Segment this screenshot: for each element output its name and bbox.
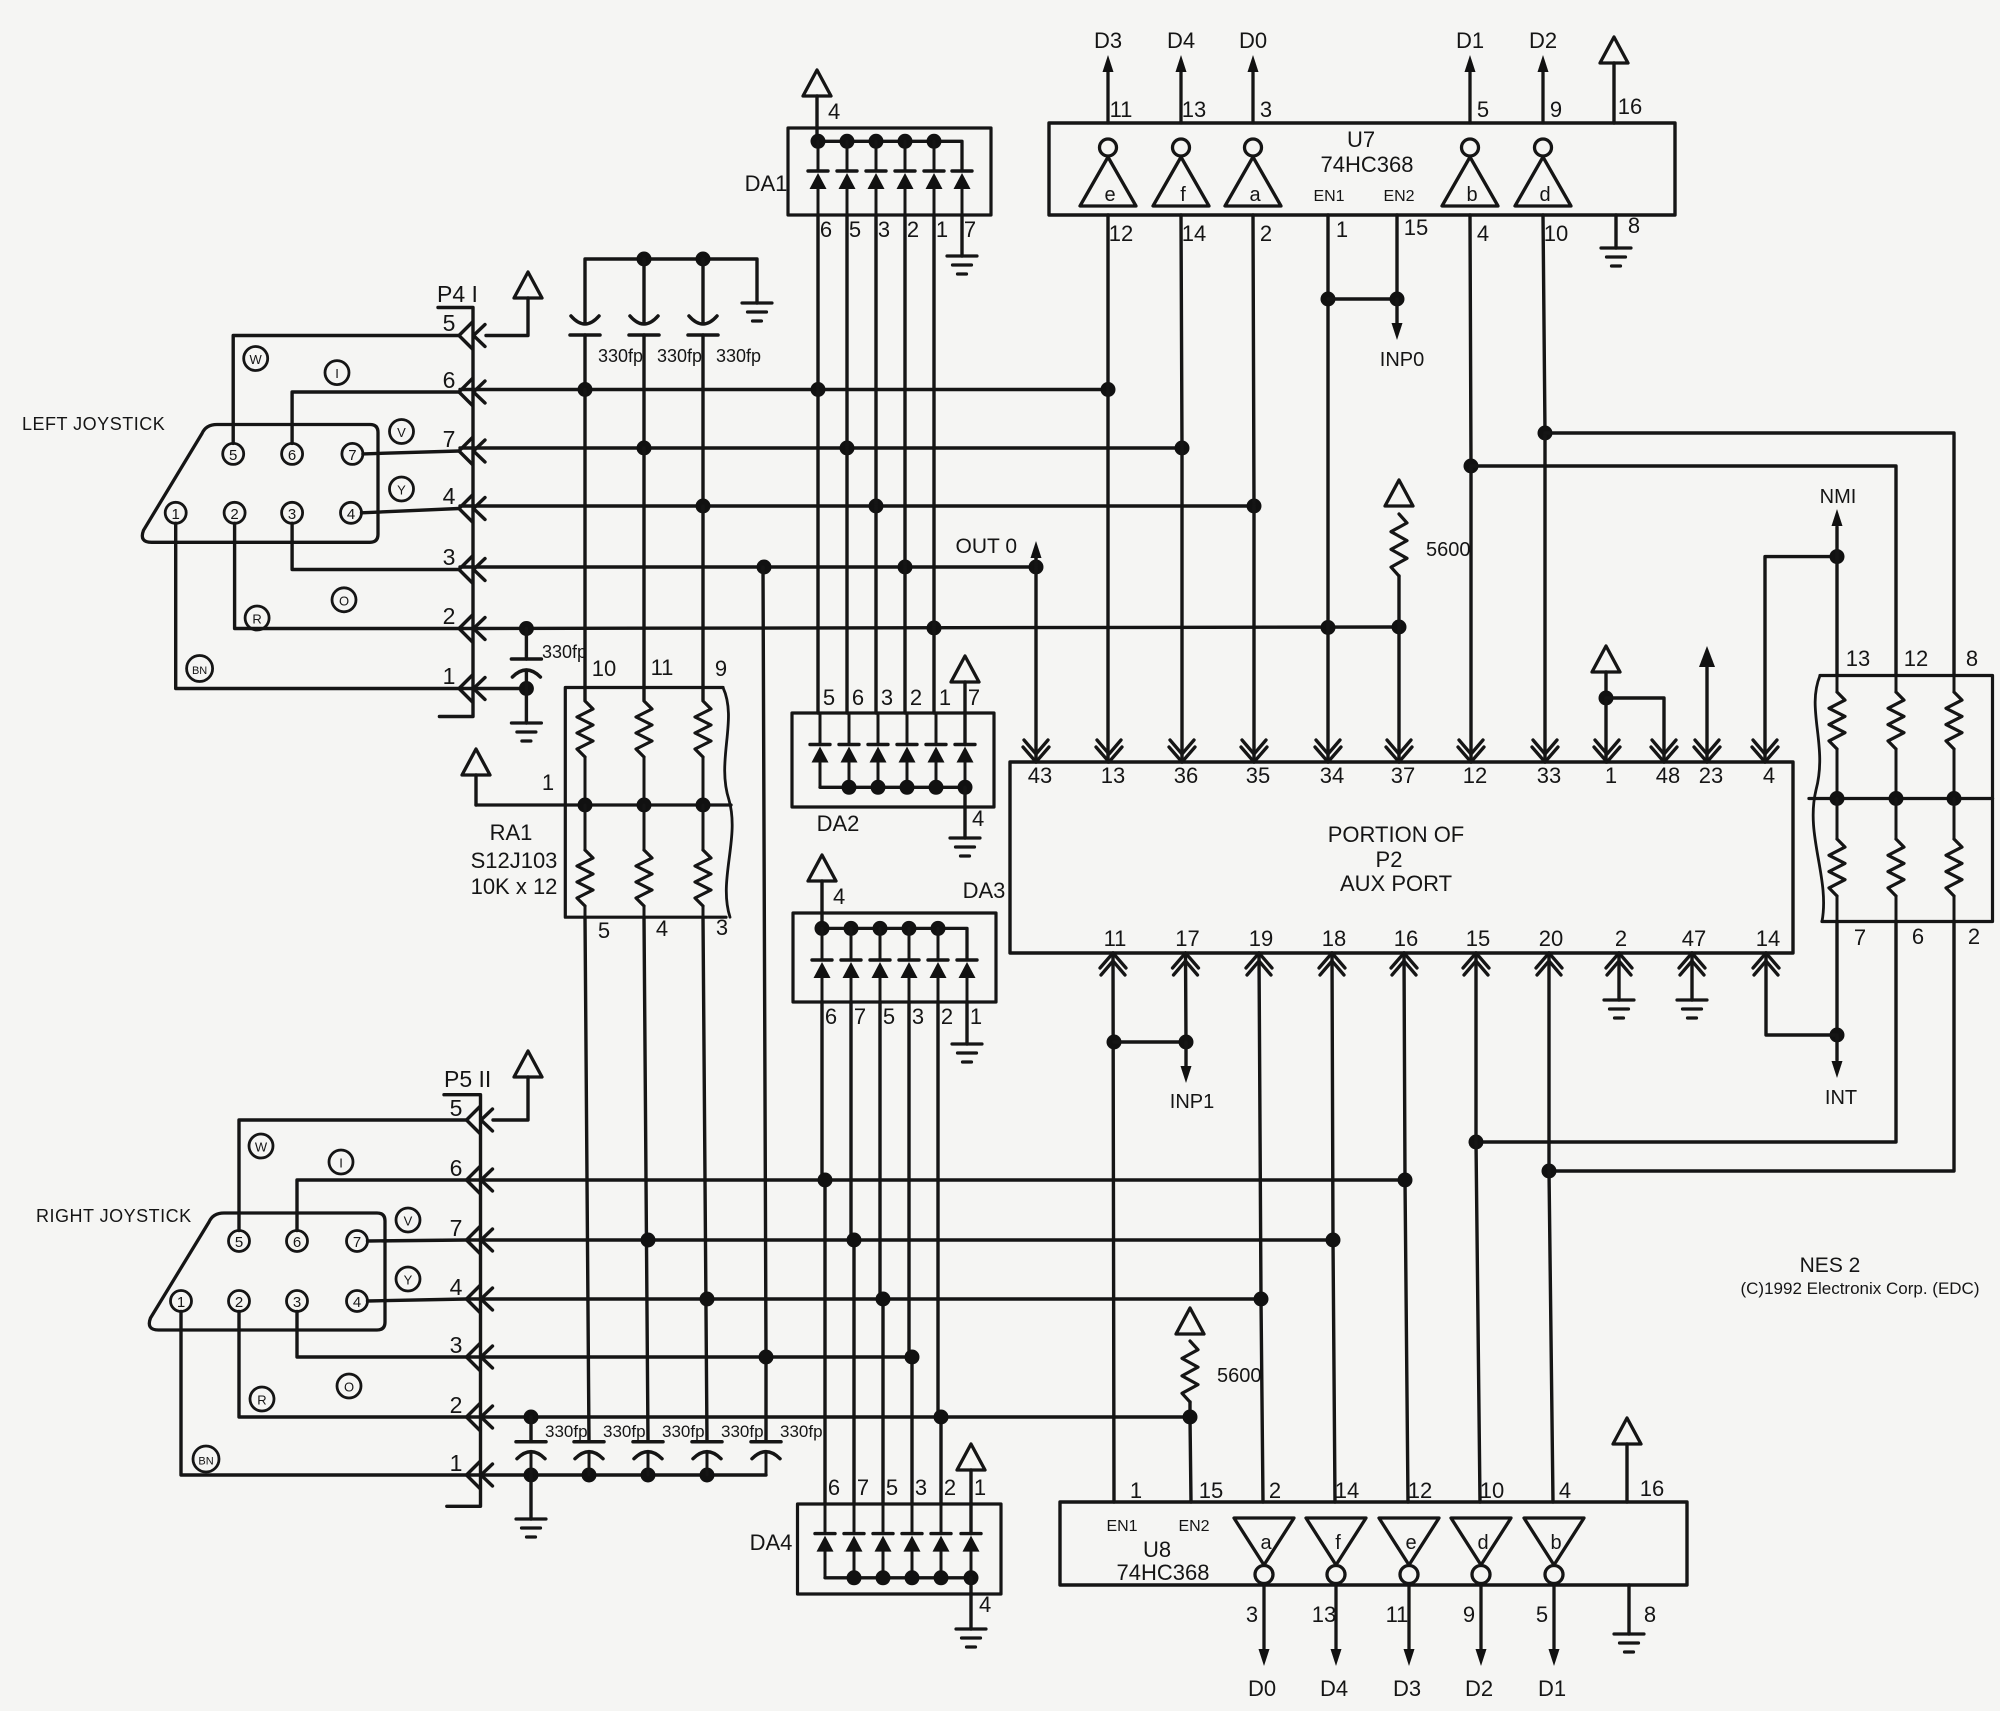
svg-text:7: 7 bbox=[348, 447, 356, 464]
svg-text:DA3: DA3 bbox=[963, 878, 1006, 903]
ground at P4.1 bbox=[511, 723, 541, 741]
svg-text:I: I bbox=[339, 1156, 343, 1171]
svg-text:2: 2 bbox=[907, 217, 919, 242]
svg-text:9: 9 bbox=[1550, 97, 1562, 122]
svg-text:13: 13 bbox=[1182, 97, 1206, 122]
left joystick pin 3 circle bbox=[282, 502, 303, 523]
svg-text:U8: U8 bbox=[1143, 1537, 1171, 1562]
svg-text:20: 20 bbox=[1539, 926, 1563, 951]
resistor RA1 10K (col3 bottom) bbox=[695, 850, 711, 906]
diode DA3.3 bbox=[870, 958, 890, 961]
left joystick wire label O bbox=[332, 588, 356, 612]
P2 pin 35 arrow bbox=[1241, 747, 1267, 762]
P5 pin 6 arrow bbox=[467, 1167, 481, 1194]
diode DA4.6 bbox=[961, 1532, 981, 1535]
svg-text:3: 3 bbox=[443, 544, 456, 570]
svg-text:INP1: INP1 bbox=[1170, 1091, 1214, 1113]
wire INT stub bbox=[1835, 1035, 1838, 1060]
diode DA1.6 bbox=[952, 169, 972, 172]
wire P5.4 net to U8.a bbox=[1261, 1299, 1263, 1502]
svg-text:(C)1992 Electronix Corp. (EDC): (C)1992 Electronix Corp. (EDC) bbox=[1740, 1279, 1979, 1298]
svg-text:330fp: 330fp bbox=[780, 1422, 823, 1441]
wire P2.4 to NMI node bbox=[1765, 557, 1837, 762]
wire P4.5 to VCC bbox=[486, 298, 528, 336]
svg-text:330fp: 330fp bbox=[721, 1422, 764, 1441]
wire U8.8 to ground bbox=[1627, 1585, 1630, 1634]
svg-text:D2: D2 bbox=[1465, 1676, 1493, 1701]
right joystick wire label Y bbox=[396, 1267, 420, 1291]
ground at P5.1 bbox=[516, 1519, 546, 1537]
DA3 common bus bbox=[822, 928, 967, 960]
junction DA col1/P4.6 bbox=[811, 382, 826, 397]
ground at P2.2 bbox=[1604, 1000, 1634, 1018]
wire P4.4 line down to DA2.3 bbox=[874, 506, 877, 713]
junction DA1 bus bbox=[898, 134, 913, 149]
junction cap/P5.1 bbox=[524, 1468, 539, 1483]
svg-text:2: 2 bbox=[443, 603, 456, 629]
svg-text:d: d bbox=[1477, 1532, 1488, 1554]
junction DA4 col5/P5.2 bbox=[934, 1410, 949, 1425]
P2 pin 47 arrow bbox=[1679, 953, 1705, 968]
wire RRA.2 to P2.20 net bbox=[1549, 922, 1954, 1172]
svg-text:10K x 12: 10K x 12 bbox=[471, 874, 558, 899]
wire v2 P4.7 down to RA1.11 bbox=[642, 448, 645, 700]
junction P2.19 net/P5.4 bbox=[1254, 1292, 1269, 1307]
svg-text:5: 5 bbox=[1536, 1602, 1548, 1627]
power VCC at 5600 pullup 2 bbox=[1176, 1308, 1204, 1334]
wire P2.20 down bbox=[1547, 953, 1550, 1171]
wire P5.1 ground line bbox=[467, 1473, 766, 1476]
svg-text:2: 2 bbox=[941, 1004, 953, 1029]
junction DA col2/P4.7 bbox=[840, 441, 855, 456]
wire P5.6 net to U8.e bbox=[1405, 1180, 1408, 1502]
arrowhead D3 bbox=[1103, 55, 1114, 72]
svg-text:1: 1 bbox=[443, 663, 456, 689]
diode DA3.5 bbox=[928, 958, 948, 961]
capacitor 330fp (bottom row 2) bbox=[574, 1440, 604, 1444]
svg-text:2: 2 bbox=[1968, 924, 1980, 949]
svg-text:3: 3 bbox=[716, 915, 728, 940]
left joystick pin 2 circle bbox=[224, 502, 245, 523]
svg-text:7: 7 bbox=[854, 1004, 866, 1029]
wire P4.7 line bbox=[460, 446, 1182, 449]
wire v2 RA1.4 down to cap bbox=[644, 917, 648, 1442]
P5 pin 4 arrow bbox=[467, 1286, 481, 1313]
svg-text:9: 9 bbox=[715, 656, 727, 681]
svg-text:5: 5 bbox=[823, 685, 835, 710]
ground at U8.8 bbox=[1614, 1634, 1644, 1652]
arrowhead INP1 bbox=[1181, 1066, 1192, 1083]
svg-text:Y: Y bbox=[404, 1273, 413, 1288]
svg-text:1: 1 bbox=[939, 685, 951, 710]
diode DA2.1 bbox=[810, 743, 830, 746]
left joystick pin 4 circle bbox=[341, 502, 362, 523]
svg-text:12: 12 bbox=[1408, 1478, 1432, 1503]
arrowhead D3 (U8) bbox=[1404, 1649, 1415, 1666]
wire diode to box edge bbox=[817, 189, 820, 215]
junction 5600/P4.2 bbox=[1392, 620, 1407, 635]
wire P4.2 line down to DA2.1 bbox=[932, 628, 935, 713]
wire 5600 to P5.2 line bbox=[1188, 1402, 1191, 1417]
wire DA4 pin into box bbox=[940, 1504, 943, 1534]
arrowhead D0 (U8) bbox=[1259, 1649, 1270, 1666]
junction DA4 bus bbox=[847, 1570, 862, 1585]
wire P4.2 net to P2.37 bbox=[1397, 627, 1400, 762]
wire U7.e net to P2.13 bbox=[1106, 390, 1109, 763]
capacitor 330fp (bottom row 4) bbox=[692, 1440, 722, 1444]
wire right joystick 3 to P5.3 bbox=[297, 1312, 466, 1358]
wire P5.3 line down to DA4.3 bbox=[910, 1357, 913, 1504]
wire U7.b net to RRA col2 bbox=[1471, 466, 1896, 676]
wire cap to ground line bbox=[765, 1453, 768, 1476]
svg-text:f: f bbox=[1180, 184, 1186, 206]
wire P5.6 line down to DA4.6 bbox=[823, 1180, 826, 1504]
svg-text:1: 1 bbox=[974, 1475, 986, 1500]
wire P4.6 line bbox=[460, 388, 1108, 391]
right joystick wire label O bbox=[337, 1374, 361, 1398]
junction P2.1/48 VCC bbox=[1599, 691, 1614, 706]
wire cap to ground line bbox=[647, 1453, 650, 1476]
wire cap to ground line bbox=[706, 1453, 709, 1476]
diode DA4.1 bbox=[815, 1532, 835, 1535]
junction RA1 bus bbox=[637, 798, 652, 813]
P4 pin 7 arrow bbox=[459, 438, 473, 465]
wire P4.2 to cap bbox=[525, 629, 528, 660]
arrowhead D1 bbox=[1465, 55, 1476, 72]
svg-text:f: f bbox=[1335, 1532, 1341, 1554]
arrowhead D2 bbox=[1538, 55, 1549, 72]
power VCC at DA1.4 bbox=[803, 70, 831, 96]
diode array DA1 box bbox=[788, 128, 991, 215]
svg-text:b: b bbox=[1550, 1532, 1561, 1554]
junction v3/P5.4 bbox=[700, 1292, 715, 1307]
junction DA2 bus bbox=[929, 780, 944, 795]
inverter U8 b bbox=[1524, 1518, 1584, 1565]
resistor 5600 (P4.2 pullup) bbox=[1391, 514, 1407, 576]
P5 pin 5 arrow bbox=[467, 1107, 481, 1134]
svg-text:1: 1 bbox=[450, 1450, 463, 1476]
junction RA1 bus bbox=[578, 798, 593, 813]
wire P5.2 to cap1 bbox=[529, 1417, 532, 1442]
resistor RA1 10K (col1 bottom) bbox=[577, 850, 593, 906]
wire P2.17 down bbox=[1184, 953, 1188, 1042]
junction DA4 col1/P5.6 bbox=[818, 1173, 833, 1188]
svg-text:11: 11 bbox=[1386, 1602, 1409, 1627]
left joystick pin 6 circle bbox=[282, 443, 303, 464]
svg-text:DA4: DA4 bbox=[750, 1530, 793, 1555]
P2 pin 19 arrow bbox=[1246, 953, 1272, 968]
ground at DA3.1 bbox=[952, 1044, 982, 1062]
junction DA3 bus bbox=[902, 921, 917, 936]
svg-text:6: 6 bbox=[828, 1475, 840, 1500]
diode DA1.1 bbox=[808, 169, 828, 172]
svg-text:330fp: 330fp bbox=[542, 642, 587, 662]
P2 pin 48 arrow bbox=[1651, 747, 1677, 762]
junction DA col5/P4.2 bbox=[927, 621, 942, 636]
svg-text:8: 8 bbox=[1628, 213, 1640, 238]
inverter U8 e bbox=[1379, 1518, 1439, 1565]
junction cap/P4.1 bbox=[519, 681, 534, 696]
svg-text:D1: D1 bbox=[1538, 1676, 1566, 1701]
svg-text:5: 5 bbox=[598, 918, 610, 943]
power VCC at P4.5 bbox=[514, 272, 542, 298]
svg-text:6: 6 bbox=[443, 367, 456, 393]
svg-text:W: W bbox=[250, 352, 263, 367]
svg-text:16: 16 bbox=[1640, 1476, 1664, 1501]
wire DA2.4 to ground bbox=[963, 787, 966, 838]
power VCC at U8.16 bbox=[1613, 1418, 1641, 1444]
junction DA1 bus bbox=[869, 134, 884, 149]
wire DA1.5 down bbox=[845, 215, 848, 448]
wire left joystick 6 to P4.6 bbox=[292, 392, 459, 443]
wire cap to ground bbox=[525, 672, 528, 723]
svg-text:4: 4 bbox=[1763, 763, 1775, 788]
junction DA4 bus bbox=[876, 1570, 891, 1585]
ground for top caps bbox=[742, 303, 772, 321]
junction OUT0/P4.3 bbox=[1029, 560, 1044, 575]
wire diode to box edge bbox=[904, 189, 907, 215]
right joystick DB9 connector body bbox=[149, 1213, 385, 1330]
svg-text:11: 11 bbox=[651, 655, 674, 680]
wire P5.2 net to U8 EN2 bbox=[1190, 1417, 1191, 1502]
wire right joystick 6 to P5.6 bbox=[297, 1180, 466, 1231]
wire P2.16 down bbox=[1404, 953, 1405, 1180]
left joystick wire label I bbox=[325, 361, 349, 385]
svg-text:4: 4 bbox=[979, 1592, 991, 1617]
wire DA4.1 from VCC bbox=[969, 1470, 972, 1534]
svg-text:LEFT JOYSTICK: LEFT JOYSTICK bbox=[22, 414, 165, 434]
junction DA3 bus bbox=[844, 921, 859, 936]
svg-text:R: R bbox=[252, 612, 261, 627]
svg-text:330fp: 330fp bbox=[662, 1422, 705, 1441]
wire P2.15 net to U8.d bbox=[1476, 1142, 1480, 1502]
wire right joystick 1 to P5.1 bbox=[181, 1312, 466, 1476]
IC U8 74HC368 box bbox=[1060, 1502, 1687, 1585]
wire DA2.7 from VCC bbox=[963, 682, 966, 745]
junction DA2 bus bbox=[871, 780, 886, 795]
wire DA4 pin into box bbox=[853, 1504, 856, 1534]
svg-text:2: 2 bbox=[235, 1294, 243, 1311]
wire DA1.6 down bbox=[816, 215, 819, 390]
junction U7.f/P4.7 bbox=[1175, 441, 1190, 456]
junction DA col4/P4.3 bbox=[898, 560, 913, 575]
svg-text:D3: D3 bbox=[1094, 28, 1122, 53]
P2 pin 18 arrow bbox=[1319, 953, 1345, 968]
svg-text:5: 5 bbox=[886, 1475, 898, 1500]
junction 5600-2/P5.2 bbox=[1183, 1410, 1198, 1425]
diode DA3.1 bbox=[812, 958, 832, 961]
svg-text:PORTION OF: PORTION OF bbox=[1328, 822, 1465, 847]
svg-text:13: 13 bbox=[1846, 646, 1870, 671]
svg-text:3: 3 bbox=[1260, 97, 1272, 122]
wire P5.4 line bbox=[467, 1297, 1261, 1300]
svg-text:1: 1 bbox=[177, 1294, 185, 1311]
svg-text:a: a bbox=[1249, 184, 1261, 206]
svg-text:5600: 5600 bbox=[1426, 539, 1471, 561]
junction DA4 bus bbox=[964, 1570, 979, 1585]
svg-text:e: e bbox=[1104, 184, 1115, 206]
wire left joystick 7 to P4.7 bbox=[363, 451, 459, 454]
wire DA3.2 down to P5.2 line bbox=[936, 1002, 939, 1417]
left joystick pin 1 circle bbox=[165, 502, 186, 523]
junction cap1/P4.6 bbox=[578, 382, 593, 397]
wire U8 d output to D2 bbox=[1479, 1584, 1482, 1650]
connector P2 AUX PORT box bbox=[1010, 762, 1793, 953]
right joystick pin 3 circle bbox=[287, 1291, 308, 1312]
svg-text:4: 4 bbox=[1559, 1478, 1571, 1503]
svg-text:330fp: 330fp bbox=[657, 346, 702, 366]
P5 pin 3 arrow bbox=[467, 1344, 481, 1371]
P2 pin 4 arrow bbox=[1752, 747, 1778, 762]
svg-text:D4: D4 bbox=[1167, 28, 1195, 53]
wire VCC to U8.16 bbox=[1625, 1444, 1628, 1502]
wire P4.4 line bbox=[460, 504, 1254, 507]
wire left joystick 1 to P4.1 bbox=[176, 523, 459, 688]
svg-text:3: 3 bbox=[450, 1332, 463, 1358]
arrowhead D4 (U8) bbox=[1331, 1649, 1342, 1666]
svg-text:7: 7 bbox=[450, 1215, 463, 1241]
junction P2.20 net bbox=[1542, 1164, 1557, 1179]
wire NMI stub bbox=[1835, 527, 1838, 557]
svg-text:2: 2 bbox=[910, 685, 922, 710]
wire RRA.6 to P2.15 net bbox=[1476, 922, 1896, 1143]
arrowhead INT bbox=[1832, 1061, 1843, 1078]
P2 pin 43 arrow bbox=[1023, 747, 1049, 762]
wire P4.7 line down to DA2.6 bbox=[845, 448, 848, 713]
svg-text:34: 34 bbox=[1320, 763, 1344, 788]
wire P5.7 line down to DA4.7 bbox=[852, 1240, 855, 1504]
svg-text:U7: U7 bbox=[1347, 127, 1375, 152]
wire P4.6 line down to DA2.5 bbox=[816, 390, 819, 714]
svg-text:6: 6 bbox=[293, 1234, 301, 1251]
svg-text:4: 4 bbox=[828, 99, 840, 124]
svg-text:NMI: NMI bbox=[1820, 486, 1857, 508]
right joystick wire label R bbox=[250, 1387, 274, 1411]
junction v2/P5.7 bbox=[641, 1233, 656, 1248]
junction U7.d net bbox=[1538, 426, 1553, 441]
svg-text:7: 7 bbox=[964, 217, 976, 242]
svg-text:7: 7 bbox=[353, 1234, 361, 1251]
junction DA3 bus bbox=[873, 921, 888, 936]
svg-text:1: 1 bbox=[542, 770, 554, 795]
wire U7.d net to RRA col3 bbox=[1545, 433, 1954, 676]
wire P5.4 line down to DA4.5 bbox=[881, 1299, 884, 1504]
wire v1 P4.6 down to RA1.10 bbox=[583, 390, 586, 701]
wire cap2 to bus bbox=[642, 259, 645, 322]
svg-text:4: 4 bbox=[833, 884, 845, 909]
diode array DA3 box bbox=[793, 913, 996, 1002]
right joystick pin 1 circle bbox=[171, 1291, 192, 1312]
svg-text:5600: 5600 bbox=[1217, 1365, 1262, 1387]
svg-text:7: 7 bbox=[1854, 925, 1866, 950]
wire U8 b output to D1 bbox=[1552, 1584, 1555, 1650]
junction cap/P5.1 bbox=[582, 1468, 597, 1483]
wire power to P2.23 bbox=[1705, 667, 1708, 762]
arrowhead D4 bbox=[1176, 55, 1187, 72]
svg-text:14: 14 bbox=[1335, 1478, 1359, 1503]
P2 pin 13 arrow bbox=[1096, 747, 1122, 762]
wire P2.19 down bbox=[1259, 953, 1261, 1299]
svg-text:330fp: 330fp bbox=[598, 346, 643, 366]
capacitor 330fp (bottom row 1) bbox=[516, 1440, 546, 1444]
wire left joystick 2 to P4.2 bbox=[235, 523, 459, 628]
P2 pin 11 arrow bbox=[1100, 953, 1126, 968]
wire DA2 pin into box bbox=[935, 713, 938, 745]
svg-text:3: 3 bbox=[915, 1475, 927, 1500]
P4 pin 4 arrow bbox=[459, 495, 473, 522]
svg-text:NES 2: NES 2 bbox=[1800, 1254, 1861, 1277]
wire v3 RA1.3 down to cap bbox=[703, 917, 707, 1442]
wire U7 e output to D3 bbox=[1106, 72, 1109, 123]
wire DA2 pin into box bbox=[848, 713, 851, 745]
svg-text:EN2: EN2 bbox=[1383, 188, 1414, 205]
svg-text:2: 2 bbox=[1260, 221, 1272, 246]
junction U7.e/P4.6 bbox=[1101, 382, 1116, 397]
svg-text:D2: D2 bbox=[1529, 28, 1557, 53]
right joystick pin 6 circle bbox=[287, 1231, 308, 1252]
wire RRA.7 down to INT node bbox=[1835, 922, 1838, 1036]
wire DA3.1 to ground bbox=[965, 1002, 968, 1044]
wire P2.18 down bbox=[1332, 953, 1333, 1240]
wire INP1 stub bbox=[1184, 1042, 1187, 1066]
diode DA4.4 bbox=[902, 1532, 922, 1535]
left joystick wire label R bbox=[245, 606, 269, 630]
svg-text:5: 5 bbox=[443, 310, 456, 336]
svg-text:BN: BN bbox=[192, 665, 207, 677]
resistor array (right, torn) box bbox=[1820, 676, 1993, 922]
svg-text:b: b bbox=[1466, 184, 1477, 206]
svg-text:V: V bbox=[397, 425, 406, 440]
svg-text:15: 15 bbox=[1199, 1478, 1223, 1503]
ground at U7.8 bbox=[1601, 248, 1631, 266]
right joystick pin 7 circle bbox=[347, 1231, 368, 1252]
svg-text:V: V bbox=[404, 1214, 413, 1229]
svg-text:16: 16 bbox=[1394, 926, 1418, 951]
svg-text:1: 1 bbox=[1605, 763, 1617, 788]
diode DA4.3 bbox=[873, 1532, 893, 1535]
svg-text:EN1: EN1 bbox=[1313, 188, 1344, 205]
svg-text:2: 2 bbox=[230, 506, 238, 523]
svg-text:4: 4 bbox=[347, 506, 355, 523]
wire DA2 pin into box bbox=[819, 713, 822, 745]
right joystick pin 4 circle bbox=[347, 1291, 368, 1312]
power VCC at P5.5 bbox=[514, 1051, 542, 1077]
RRA common bus bbox=[1809, 797, 1993, 800]
wire DA1.2 down bbox=[903, 215, 906, 567]
wire P4.1 line bbox=[460, 687, 526, 690]
diode DA2.4 bbox=[897, 743, 917, 746]
wire U7 EN2 down bbox=[1395, 215, 1398, 299]
left joystick DB9 connector body bbox=[142, 425, 378, 543]
junction DA2 bus bbox=[900, 780, 915, 795]
wire right joystick 5 to P5.5 bbox=[239, 1120, 466, 1231]
P5 pin 1 arrow bbox=[467, 1462, 481, 1489]
junction RA1 bus bbox=[696, 798, 711, 813]
wire cap C3 to signal line bbox=[701, 335, 704, 506]
svg-text:33: 33 bbox=[1537, 763, 1561, 788]
diode DA3.6 bbox=[957, 958, 977, 961]
svg-text:19: 19 bbox=[1249, 926, 1273, 951]
svg-text:37: 37 bbox=[1391, 763, 1415, 788]
wire U7 f output to D4 bbox=[1179, 72, 1182, 123]
P4 pin 1 arrow bbox=[459, 675, 473, 702]
svg-text:1: 1 bbox=[172, 506, 180, 523]
P2 pin 14 arrow bbox=[1753, 953, 1779, 968]
wire DA4.4 to ground bbox=[969, 1578, 972, 1629]
wire P2.20 net to U8.b bbox=[1549, 1171, 1553, 1502]
junction RRA bus bbox=[1889, 791, 1904, 806]
wire right joystick 7 to P5.7 bbox=[368, 1240, 467, 1241]
